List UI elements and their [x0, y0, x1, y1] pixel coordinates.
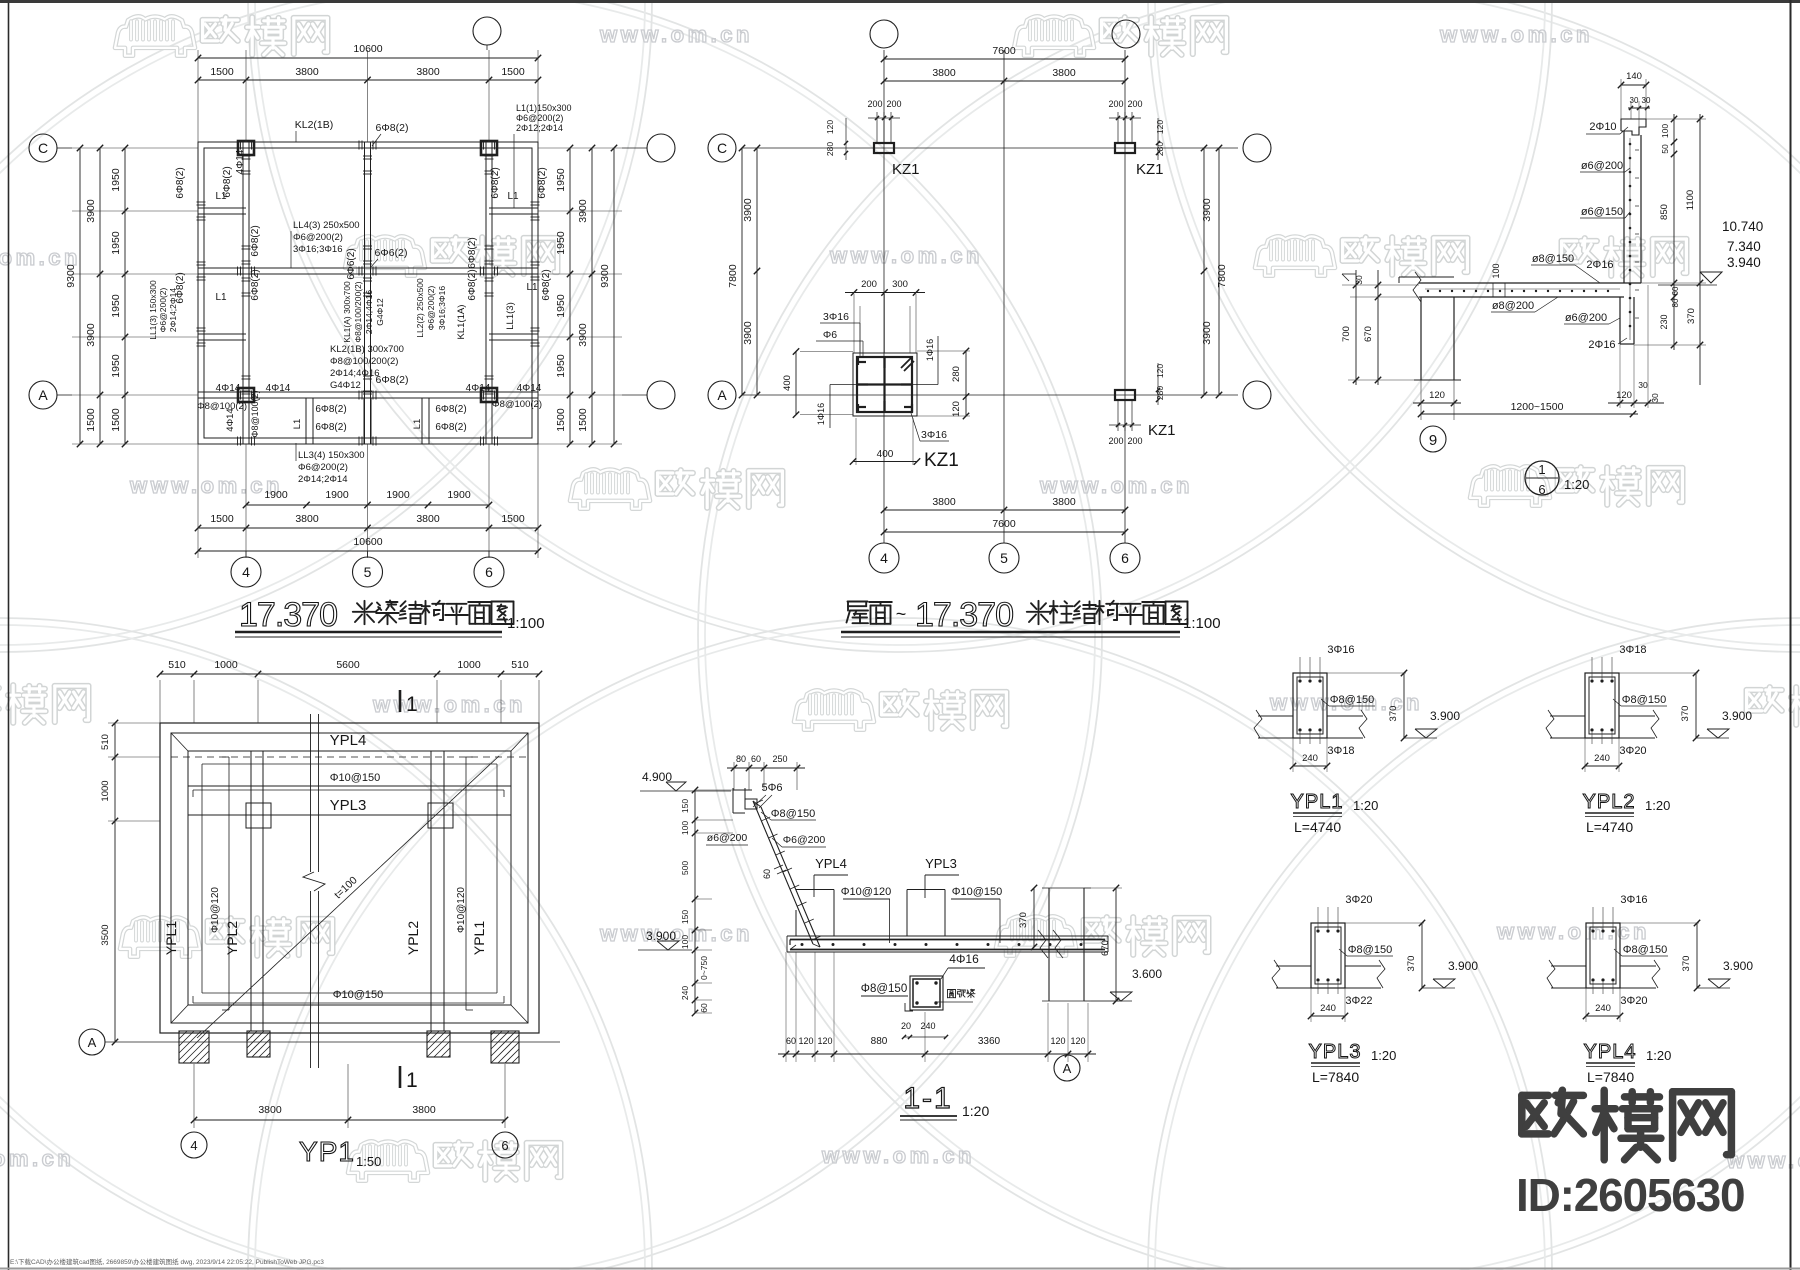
svg-text:YPL2: YPL2 — [1583, 791, 1636, 813]
svg-text:1:100: 1:100 — [1183, 615, 1221, 632]
svg-text:140: 140 — [1626, 71, 1642, 82]
svg-text:1-1: 1-1 — [903, 1082, 952, 1115]
svg-text:3Φ22: 3Φ22 — [1345, 995, 1372, 1007]
svg-text:3Φ16;3Φ16: 3Φ16;3Φ16 — [437, 286, 447, 331]
svg-text:Φ8@100/200(2): Φ8@100/200(2) — [330, 356, 398, 367]
svg-text:Φ8@100(2): Φ8@100(2) — [250, 390, 260, 437]
svg-text:240: 240 — [1302, 753, 1318, 764]
svg-text:Φ10@120: Φ10@120 — [456, 887, 467, 933]
svg-text:www.om.cn: www.om.cn — [1439, 22, 1593, 47]
svg-text:5600: 5600 — [336, 659, 360, 671]
svg-text:A: A — [1063, 1061, 1072, 1076]
svg-text:1000: 1000 — [457, 659, 481, 671]
svg-text:300: 300 — [892, 279, 908, 290]
svg-text:370: 370 — [1686, 308, 1697, 324]
svg-text:YP1: YP1 — [299, 1136, 355, 1167]
svg-text:7800: 7800 — [727, 264, 739, 288]
svg-text:7800: 7800 — [1216, 264, 1228, 288]
svg-text:60: 60 — [762, 869, 772, 879]
svg-text:150: 150 — [680, 910, 690, 924]
svg-text:240: 240 — [920, 1021, 935, 1031]
svg-text:200: 200 — [861, 279, 877, 290]
svg-text:60: 60 — [699, 1003, 709, 1013]
svg-text:120: 120 — [798, 1036, 813, 1046]
svg-text:30: 30 — [1354, 275, 1364, 285]
svg-text:370: 370 — [1018, 912, 1029, 928]
svg-text:1Φ16: 1Φ16 — [816, 403, 826, 425]
svg-text:3.900: 3.900 — [1448, 959, 1478, 973]
svg-text:3Φ18: 3Φ18 — [1619, 644, 1646, 656]
svg-text:ø6@200: ø6@200 — [1565, 312, 1607, 324]
svg-text:200: 200 — [867, 99, 882, 109]
svg-text:LL2(2) 250x500: LL2(2) 250x500 — [415, 278, 425, 338]
svg-text:LL3(4) 150x300: LL3(4) 150x300 — [298, 450, 365, 461]
svg-text:Φ6@200(2): Φ6@200(2) — [426, 285, 436, 330]
svg-text:3800: 3800 — [416, 513, 440, 525]
svg-text:LL1(3): LL1(3) — [505, 302, 516, 329]
svg-text:6Φ8(2): 6Φ8(2) — [435, 404, 466, 415]
svg-text:ø8@150: ø8@150 — [1532, 253, 1574, 265]
svg-text:6Φ8(2): 6Φ8(2) — [175, 167, 186, 198]
svg-text:4: 4 — [190, 1138, 197, 1153]
svg-text:LL1(3) 150x300: LL1(3) 150x300 — [148, 280, 158, 340]
svg-text:3Φ20: 3Φ20 — [1345, 894, 1372, 906]
svg-text:2Φ12;2Φ14: 2Φ12;2Φ14 — [516, 123, 563, 133]
svg-text:Φ10@150: Φ10@150 — [330, 772, 381, 784]
svg-text:Φ8@150: Φ8@150 — [1622, 694, 1666, 706]
svg-text:1:20: 1:20 — [1371, 1048, 1396, 1063]
svg-text:3Φ16: 3Φ16 — [921, 429, 947, 441]
svg-text:1900: 1900 — [447, 489, 471, 501]
svg-text:3800: 3800 — [295, 66, 319, 78]
svg-text:1950: 1950 — [110, 231, 122, 255]
svg-text:3900: 3900 — [577, 323, 589, 347]
svg-text:370: 370 — [1681, 956, 1692, 972]
svg-text:4Φ14: 4Φ14 — [266, 383, 291, 394]
svg-text:3.600: 3.600 — [1132, 967, 1162, 981]
svg-text:6: 6 — [485, 564, 493, 580]
svg-text:500: 500 — [680, 861, 690, 875]
svg-text:YPL3: YPL3 — [330, 797, 367, 814]
svg-text:5: 5 — [364, 564, 372, 580]
svg-text:4Φ14: 4Φ14 — [466, 383, 491, 394]
svg-text:80: 80 — [736, 754, 746, 764]
svg-text:1500: 1500 — [210, 66, 234, 78]
svg-text:1:20: 1:20 — [962, 1103, 989, 1119]
svg-text:60: 60 — [786, 1036, 796, 1046]
svg-text:200: 200 — [1108, 99, 1123, 109]
svg-text:850: 850 — [1659, 204, 1670, 220]
svg-text:5: 5 — [1000, 550, 1008, 566]
svg-text:370: 370 — [1406, 956, 1417, 972]
svg-text:YPL2: YPL2 — [405, 921, 421, 955]
svg-text:3Φ16: 3Φ16 — [823, 311, 849, 323]
svg-text:1000: 1000 — [100, 780, 111, 801]
svg-text:L1: L1 — [507, 191, 519, 202]
svg-text:Φ6@200(2): Φ6@200(2) — [158, 287, 168, 332]
svg-text:YPL1: YPL1 — [1291, 791, 1344, 813]
svg-text:6Φ6(2): 6Φ6(2) — [375, 247, 408, 259]
svg-text:10.740: 10.740 — [1722, 219, 1763, 234]
svg-text:670: 670 — [1100, 940, 1111, 956]
svg-text:1950: 1950 — [555, 294, 567, 318]
svg-text:Φ10@120: Φ10@120 — [841, 886, 892, 898]
svg-text:Φ6@200(2): Φ6@200(2) — [298, 462, 348, 473]
svg-text:240: 240 — [1594, 753, 1610, 764]
svg-text:E:\下载CAD\办公楼建筑cad图纸, 2669859\办: E:\下载CAD\办公楼建筑cad图纸, 2669859\办公楼建筑图纸 dwg… — [10, 1257, 324, 1266]
svg-text:LL4(3) 250x500: LL4(3) 250x500 — [293, 220, 360, 231]
svg-text:KL1(A) 300x700: KL1(A) 300x700 — [342, 281, 352, 343]
svg-text:2Φ14;2Φ14: 2Φ14;2Φ14 — [298, 474, 348, 485]
svg-text:1:50: 1:50 — [356, 1154, 381, 1169]
svg-text:2Φ16: 2Φ16 — [1586, 259, 1613, 271]
svg-text:1500: 1500 — [577, 408, 589, 432]
svg-text:1:20: 1:20 — [1564, 477, 1589, 492]
svg-text:6Φ8(2): 6Φ8(2) — [315, 422, 346, 433]
svg-text:120: 120 — [1616, 390, 1632, 401]
svg-text:1:20: 1:20 — [1646, 1048, 1671, 1063]
svg-text:100: 100 — [680, 935, 690, 949]
svg-text:www.om.cn: www.om.cn — [821, 1143, 975, 1168]
svg-text:3.900: 3.900 — [1722, 709, 1752, 723]
svg-text:G4Φ12: G4Φ12 — [375, 298, 385, 326]
svg-text:1900: 1900 — [386, 489, 410, 501]
svg-text:YPL4: YPL4 — [815, 856, 847, 871]
svg-text:10600: 10600 — [353, 43, 382, 55]
svg-text:www.om.cn: www.om.cn — [1039, 473, 1193, 498]
svg-text:YPL3: YPL3 — [1309, 1041, 1362, 1063]
svg-text:L1: L1 — [292, 419, 303, 430]
svg-text:Φ8@150: Φ8@150 — [771, 808, 815, 820]
svg-text:1950: 1950 — [110, 354, 122, 378]
svg-text:KZ1: KZ1 — [1136, 161, 1164, 178]
svg-text:240: 240 — [1320, 1003, 1336, 1014]
svg-text:1: 1 — [406, 693, 418, 716]
svg-text:1950: 1950 — [555, 354, 567, 378]
svg-text:200: 200 — [1127, 436, 1142, 446]
svg-text:1500: 1500 — [555, 408, 567, 432]
svg-text:3900: 3900 — [1201, 198, 1213, 222]
svg-text:4Φ16: 4Φ16 — [949, 952, 979, 966]
svg-text:L=4740: L=4740 — [1294, 819, 1341, 835]
svg-text:Φ6@200: Φ6@200 — [783, 834, 826, 846]
svg-text:YPL4: YPL4 — [330, 732, 367, 749]
svg-text:6Φ8(2): 6Φ8(2) — [376, 122, 409, 134]
svg-text:KL2(1B) 300x700: KL2(1B) 300x700 — [330, 344, 404, 355]
svg-text:KZ1: KZ1 — [1148, 422, 1176, 439]
svg-text:Φ6: Φ6 — [823, 329, 837, 341]
svg-text:120: 120 — [1070, 1036, 1085, 1046]
svg-text:3800: 3800 — [258, 1104, 282, 1116]
svg-text:C: C — [38, 140, 48, 156]
svg-text:YPL3: YPL3 — [925, 856, 957, 871]
svg-text:30: 30 — [1638, 380, 1648, 390]
svg-text:ø6@200: ø6@200 — [707, 832, 748, 844]
svg-text:3800: 3800 — [412, 1104, 436, 1116]
svg-text:YPL1: YPL1 — [471, 921, 487, 955]
svg-text:280: 280 — [951, 366, 962, 382]
svg-text:A: A — [717, 387, 727, 403]
svg-text:3900: 3900 — [85, 323, 97, 347]
svg-text:L1: L1 — [412, 419, 423, 430]
svg-text:KL1(1A): KL1(1A) — [456, 305, 467, 340]
svg-text:2Φ16: 2Φ16 — [1588, 339, 1615, 351]
svg-text:670: 670 — [1363, 326, 1374, 342]
svg-text:6Φ6(2): 6Φ6(2) — [346, 248, 357, 279]
svg-text:120: 120 — [825, 120, 835, 134]
svg-text:120: 120 — [1155, 120, 1165, 134]
svg-text:3.900: 3.900 — [1430, 709, 1460, 723]
svg-text:1:100: 1:100 — [507, 615, 545, 632]
svg-text:Φ8@100(2): Φ8@100(2) — [492, 399, 542, 410]
svg-text:ø6@150: ø6@150 — [1581, 206, 1623, 218]
svg-text:3.940: 3.940 — [1727, 255, 1761, 270]
svg-text:L1: L1 — [526, 282, 538, 293]
svg-text:6Φ8(2): 6Φ8(2) — [467, 237, 478, 268]
svg-text:Φ8@150: Φ8@150 — [1623, 944, 1667, 956]
svg-text:2Φ10: 2Φ10 — [1589, 121, 1616, 133]
svg-text:120: 120 — [1155, 364, 1165, 378]
svg-text:120: 120 — [951, 401, 962, 417]
svg-text:6Φ8(2): 6Φ8(2) — [175, 272, 186, 303]
svg-text:6Φ8(2): 6Φ8(2) — [376, 374, 409, 386]
svg-text:3800: 3800 — [932, 496, 956, 508]
svg-text:3800: 3800 — [295, 513, 319, 525]
svg-text:400: 400 — [782, 375, 793, 391]
svg-text:1950: 1950 — [555, 168, 567, 192]
svg-text:YPL1: YPL1 — [163, 921, 179, 955]
svg-text:1:20: 1:20 — [1645, 798, 1670, 813]
svg-text:6Φ8(2): 6Φ8(2) — [467, 269, 478, 300]
svg-text:3500: 3500 — [100, 924, 111, 945]
svg-text:700: 700 — [1341, 326, 1352, 342]
svg-text:370: 370 — [1680, 706, 1691, 722]
svg-text:0~750: 0~750 — [699, 956, 709, 980]
svg-text:2Φ14;4Φ16: 2Φ14;4Φ16 — [364, 290, 374, 335]
svg-text:3Φ16: 3Φ16 — [1620, 894, 1647, 906]
svg-text:www.om.cn: www.om.cn — [129, 473, 283, 498]
svg-text:4Φ14: 4Φ14 — [225, 408, 236, 431]
svg-text:A: A — [88, 1035, 97, 1050]
svg-text:1: 1 — [1538, 462, 1545, 477]
svg-text:YPL4: YPL4 — [1584, 1041, 1637, 1063]
svg-text:240: 240 — [1595, 1003, 1611, 1014]
svg-text:80: 80 — [1671, 298, 1680, 307]
svg-text:120: 120 — [817, 1036, 832, 1046]
svg-text:Φ10@120: Φ10@120 — [210, 887, 221, 933]
svg-text:A: A — [38, 387, 48, 403]
svg-text:1500: 1500 — [85, 408, 97, 432]
svg-text:ID:2605630: ID:2605630 — [1516, 1169, 1744, 1221]
svg-text:60: 60 — [1671, 286, 1680, 295]
svg-text:L1(1)150x300: L1(1)150x300 — [516, 103, 572, 113]
svg-text:370: 370 — [1388, 706, 1399, 722]
svg-text:50: 50 — [1660, 144, 1670, 154]
svg-text:Φ8@100/200(2): Φ8@100/200(2) — [353, 281, 363, 342]
svg-text:4Φ14: 4Φ14 — [216, 383, 241, 394]
svg-text:Φ8@150: Φ8@150 — [1348, 944, 1392, 956]
svg-text:240: 240 — [680, 986, 690, 1000]
svg-text:9: 9 — [1429, 432, 1437, 449]
svg-text:1900: 1900 — [264, 489, 288, 501]
svg-text:3Φ20: 3Φ20 — [1619, 745, 1646, 757]
svg-text:510: 510 — [511, 659, 529, 671]
svg-text:4: 4 — [880, 550, 888, 566]
svg-text:ø6@200: ø6@200 — [1581, 160, 1623, 172]
svg-text:L1: L1 — [215, 191, 227, 202]
svg-text:om.cn: om.cn — [0, 1146, 74, 1171]
svg-text:120: 120 — [1050, 1036, 1065, 1046]
svg-text:510: 510 — [168, 659, 186, 671]
svg-text:6Φ8(2): 6Φ8(2) — [250, 225, 261, 256]
svg-text:17.370: 17.370 — [915, 596, 1013, 634]
svg-text:3.900: 3.900 — [1723, 959, 1753, 973]
svg-text:510: 510 — [100, 734, 111, 750]
svg-text:60: 60 — [751, 754, 761, 764]
svg-text:280: 280 — [825, 142, 835, 156]
svg-text:1950: 1950 — [110, 168, 122, 192]
svg-text:L1: L1 — [215, 292, 227, 303]
svg-text:3Φ16;3Φ16: 3Φ16;3Φ16 — [293, 244, 343, 255]
svg-text:www.om.cn: www.om.cn — [372, 692, 526, 717]
svg-text:1200~1500: 1200~1500 — [1511, 401, 1564, 413]
svg-text:9300: 9300 — [599, 264, 611, 288]
svg-text:4Φ14: 4Φ14 — [517, 383, 542, 394]
svg-text:200: 200 — [1127, 99, 1142, 109]
svg-text:1900: 1900 — [325, 489, 349, 501]
svg-text:2Φ14;4Φ16: 2Φ14;4Φ16 — [330, 368, 380, 379]
svg-text:~: ~ — [896, 604, 907, 624]
svg-text:L=7840: L=7840 — [1587, 1069, 1634, 1085]
svg-text:3800: 3800 — [416, 66, 440, 78]
svg-text:1Φ16: 1Φ16 — [925, 339, 935, 361]
svg-text:200: 200 — [886, 99, 901, 109]
svg-text:6Φ8(2): 6Φ8(2) — [250, 269, 261, 300]
svg-text:C: C — [717, 140, 727, 156]
svg-text:KZ1: KZ1 — [892, 161, 920, 178]
svg-text:ø8@200: ø8@200 — [1492, 300, 1534, 312]
svg-text:Φ8@150: Φ8@150 — [1330, 694, 1374, 706]
svg-text:6Φ8(2): 6Φ8(2) — [315, 404, 346, 415]
svg-text:1100: 1100 — [1685, 190, 1696, 210]
svg-text:7600: 7600 — [992, 45, 1016, 57]
svg-text:3800: 3800 — [1052, 496, 1076, 508]
svg-text:Φ8@100(2): Φ8@100(2) — [197, 401, 247, 412]
svg-text:6: 6 — [1538, 482, 1545, 497]
svg-text:100: 100 — [1491, 263, 1501, 278]
svg-text:3360: 3360 — [978, 1036, 1001, 1047]
svg-text:5Φ6: 5Φ6 — [761, 782, 782, 794]
svg-text:1: 1 — [406, 1069, 418, 1092]
svg-text:6Φ8(2): 6Φ8(2) — [435, 422, 466, 433]
svg-text:G4Φ12: G4Φ12 — [330, 380, 361, 391]
svg-text:30: 30 — [1650, 393, 1660, 403]
svg-text:1500: 1500 — [501, 513, 525, 525]
svg-text:250: 250 — [772, 754, 787, 764]
svg-text:Φ10@150: Φ10@150 — [333, 989, 384, 1001]
svg-text:400: 400 — [877, 449, 894, 460]
svg-text:150: 150 — [680, 799, 690, 813]
svg-text:10600: 10600 — [353, 536, 382, 548]
svg-text:L=4740: L=4740 — [1586, 819, 1633, 835]
svg-text:4: 4 — [242, 564, 250, 580]
svg-text:1500: 1500 — [110, 408, 122, 432]
svg-text:3800: 3800 — [932, 67, 956, 79]
svg-text:KL2(1B): KL2(1B) — [295, 119, 334, 131]
svg-text:3Φ16: 3Φ16 — [1327, 644, 1354, 656]
svg-text:Φ10@150: Φ10@150 — [952, 886, 1003, 898]
svg-text:3Φ20: 3Φ20 — [1620, 995, 1647, 1007]
svg-text:3900: 3900 — [1201, 321, 1213, 345]
svg-text:www.om.cn: www.om.cn — [829, 243, 983, 268]
svg-text:L=7840: L=7840 — [1312, 1069, 1359, 1085]
svg-text:KZ1: KZ1 — [924, 450, 959, 471]
svg-text:6Φ8(2): 6Φ8(2) — [541, 269, 552, 300]
svg-text:1950: 1950 — [110, 294, 122, 318]
svg-text:www.om.cn: www.om.cn — [599, 22, 753, 47]
svg-text:120: 120 — [1429, 390, 1445, 401]
svg-text:4Φ14: 4Φ14 — [235, 149, 246, 174]
svg-text:3900: 3900 — [742, 321, 754, 345]
svg-text:100: 100 — [1660, 124, 1670, 138]
svg-text:17.370: 17.370 — [239, 596, 337, 634]
svg-text:1500: 1500 — [501, 66, 525, 78]
svg-text:20: 20 — [901, 1021, 911, 1031]
svg-text:100: 100 — [680, 821, 690, 835]
svg-text:1:20: 1:20 — [1353, 798, 1378, 813]
svg-text:6Φ8(2): 6Φ8(2) — [537, 167, 548, 198]
svg-text:880: 880 — [871, 1036, 888, 1047]
svg-text:6: 6 — [1121, 550, 1129, 566]
svg-text:3900: 3900 — [742, 198, 754, 222]
svg-text:6: 6 — [501, 1138, 508, 1153]
svg-text:230: 230 — [1659, 314, 1669, 329]
svg-text:1950: 1950 — [555, 231, 567, 255]
svg-text:YPL2: YPL2 — [224, 921, 240, 955]
svg-text:7.340: 7.340 — [1727, 239, 1761, 254]
svg-text:9300: 9300 — [65, 264, 77, 288]
svg-text:3Φ18: 3Φ18 — [1327, 745, 1354, 757]
svg-text:1000: 1000 — [214, 659, 238, 671]
svg-text:200: 200 — [1108, 436, 1123, 446]
svg-text:1500: 1500 — [210, 513, 234, 525]
svg-text:6Φ8(2): 6Φ8(2) — [490, 167, 501, 198]
svg-text:Φ6@200(2): Φ6@200(2) — [293, 232, 343, 243]
svg-text:Φ8@150: Φ8@150 — [861, 983, 907, 995]
svg-text:7600: 7600 — [992, 518, 1016, 530]
svg-text:Φ6@200(2): Φ6@200(2) — [516, 113, 563, 123]
svg-text:3800: 3800 — [1052, 67, 1076, 79]
